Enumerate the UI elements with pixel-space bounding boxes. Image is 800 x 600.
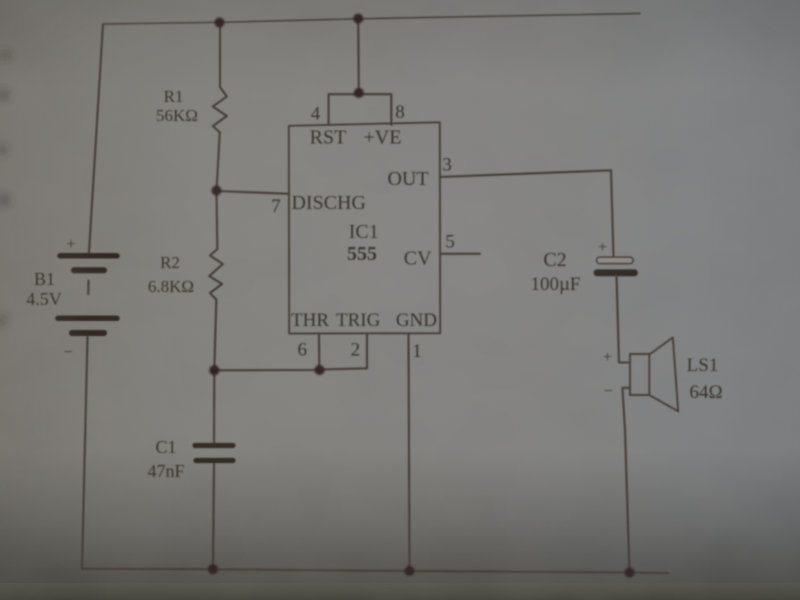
wire pin 6 stub <box>318 334 320 370</box>
wire C1 bottom to bottom rail <box>213 463 214 569</box>
battery B1 plate short top <box>74 267 104 273</box>
speaker LS1 cone <box>649 338 678 412</box>
wire pin 2 elbow <box>321 334 367 370</box>
wire R1 bottom to node <box>217 133 220 191</box>
node R2/C1/pin6 wire <box>209 365 219 375</box>
node R1/R2/pin7 <box>212 186 222 196</box>
wire node to pin 7 (DISCHG) <box>217 191 290 194</box>
battery B1 inner link <box>87 281 89 295</box>
node top rail / R1 <box>215 18 225 28</box>
wire pins 4-8 bracket <box>329 94 392 125</box>
battery B1 plate short bottom <box>72 330 104 336</box>
wire pin 3 (OUT) to C2 <box>440 170 614 257</box>
wire R2 bottom to node <box>214 300 216 371</box>
wire +VE feed from top rail <box>357 19 360 93</box>
wire node to C1 top <box>213 370 215 443</box>
wire top rail <box>103 14 640 25</box>
wire pin 1 (GND) to bottom rail <box>409 334 410 572</box>
capacitor C2 bottom plate <box>597 269 635 276</box>
wire bottom rail <box>82 569 668 573</box>
wire pin 5 (CV) stub <box>442 253 481 255</box>
battery B1 plate long bottom <box>58 316 117 322</box>
wire node to R2 top <box>215 191 218 250</box>
battery B1 plate long top <box>60 253 117 259</box>
wire node to pins 6/2 junction <box>214 369 319 371</box>
capacitor C2 top plate <box>597 257 634 263</box>
wire R1 top feed <box>219 22 221 87</box>
node C1/bottom rail <box>208 564 218 574</box>
capacitor C1 top plate <box>195 443 233 448</box>
speaker LS1 driver box <box>630 354 649 395</box>
op-amp/IC U1 body (555 box) <box>289 122 440 333</box>
resistor R1 <box>213 87 227 133</box>
wire left rail upper (to battery +) <box>89 24 103 253</box>
capacitor C1 bottom plate <box>196 458 233 463</box>
wire left rail lower (battery - to bottom rail) <box>82 337 88 569</box>
node bracket junction <box>354 88 364 98</box>
node GND/bottom rail <box>405 566 415 576</box>
node pin6/pin2 <box>315 365 325 375</box>
wire speaker - to bottom rail <box>622 388 630 573</box>
node top rail / +VE feed <box>353 14 363 24</box>
wire C2 bottom to speaker + <box>617 275 630 363</box>
node speaker/bottom rail <box>625 568 635 578</box>
resistor R2 <box>209 249 223 300</box>
